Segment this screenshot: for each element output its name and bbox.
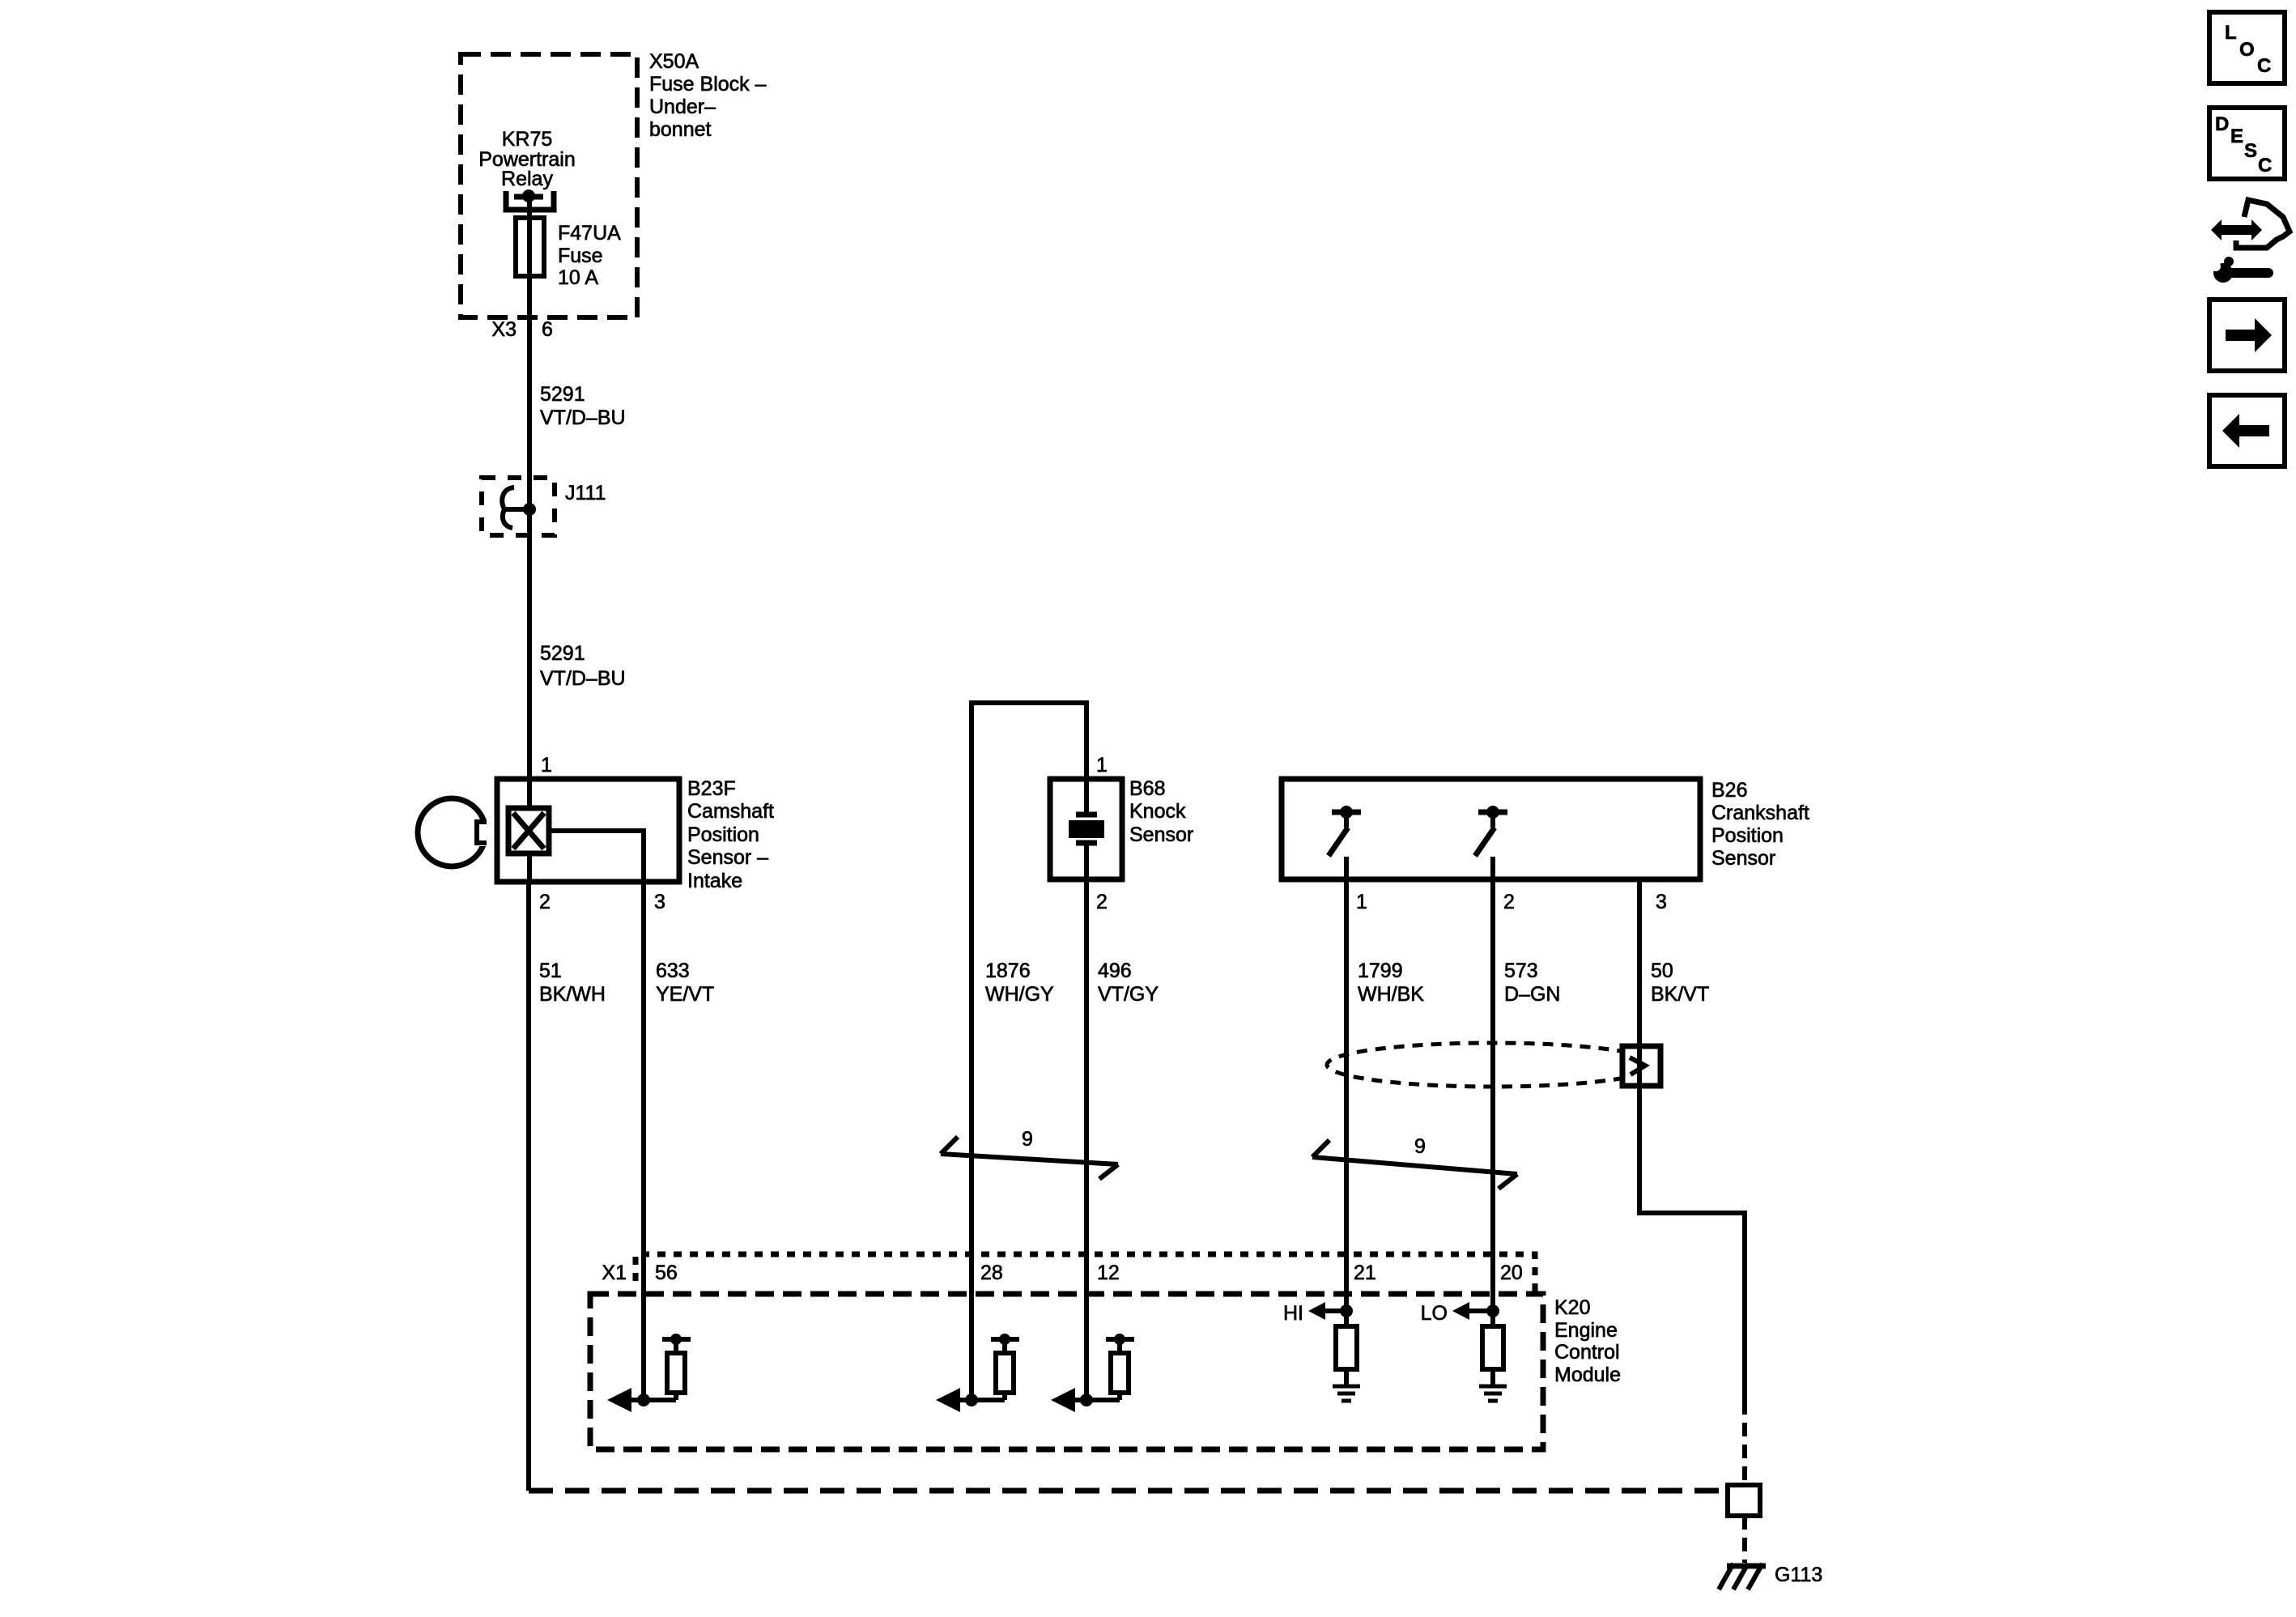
wire X-box to pin 3 [549, 831, 644, 882]
ECM pin 12 termination [1051, 1334, 1134, 1412]
svg-text:5291: 5291 [540, 383, 585, 406]
svg-text:2: 2 [1096, 891, 1108, 913]
label 496 VT/GY [1098, 960, 1159, 1006]
svg-text:2: 2 [1503, 891, 1515, 913]
wire ground dashed run [529, 1488, 1728, 1494]
svg-text:G113: G113 [1775, 1564, 1822, 1586]
fuse F47UA [516, 218, 544, 276]
label 633 YE/VT [656, 960, 714, 1006]
wire 50 dashed to ground [1742, 1401, 1747, 1485]
switch element pin1 B26 [1329, 806, 1361, 856]
svg-text:YE/VT: YE/VT [656, 983, 714, 1006]
pin X3 6 labels [491, 318, 553, 341]
svg-text:1: 1 [1096, 754, 1108, 777]
switch element pin2 B26 [1475, 806, 1507, 856]
connector X1 dotted boundary [636, 1254, 1535, 1294]
svg-text:2: 2 [539, 891, 551, 913]
pin labels 1 2 3 B26 [1356, 891, 1667, 913]
svg-text:bonnet: bonnet [649, 118, 712, 141]
svg-text:Knock: Knock [1129, 800, 1186, 823]
svg-text:WH/GY: WH/GY [985, 983, 1054, 1006]
svg-text:E: E [2230, 126, 2243, 147]
svg-text:12: 12 [1097, 1262, 1120, 1284]
label B23F Camshaft Position Sensor - Intake [687, 777, 774, 892]
label 1876 WH/GY [985, 960, 1054, 1006]
svg-text:10 A: 10 A [558, 266, 598, 289]
label K20 Engine Control Module [1554, 1296, 1621, 1386]
svg-text:C: C [2258, 155, 2272, 177]
svg-text:56: 56 [655, 1262, 678, 1284]
svg-text:9: 9 [1022, 1128, 1033, 1151]
label F47UA Fuse 10 A [558, 222, 621, 289]
svg-text:Sensor: Sensor [1711, 847, 1775, 870]
svg-text:20: 20 [1500, 1262, 1523, 1284]
svg-text:Position: Position [1711, 824, 1784, 847]
wire 573 D-GN [1490, 857, 1495, 1328]
label 51 BK/WH [539, 960, 606, 1006]
svg-text:Position: Position [687, 823, 759, 846]
svg-text:WH/BK: WH/BK [1358, 983, 1424, 1006]
label B26 Crankshaft Position Sensor [1711, 779, 1809, 870]
svg-text:B68: B68 [1129, 777, 1165, 800]
wire 1799 WH/BK [1344, 857, 1349, 1328]
svg-text:D: D [2215, 113, 2229, 135]
wire 5291 VT/D-BU upper [527, 317, 532, 779]
svg-text:Module: Module [1554, 1364, 1621, 1386]
svg-text:BK/WH: BK/WH [539, 983, 606, 1006]
splice J111 dashed box [482, 478, 555, 535]
svg-text:28: 28 [980, 1262, 1003, 1284]
label 50 BK/VT [1651, 960, 1709, 1006]
svg-text:BK/VT: BK/VT [1651, 983, 1709, 1006]
icon DESC box [2209, 108, 2285, 179]
svg-text:K20: K20 [1554, 1296, 1590, 1319]
svg-text:51: 51 [539, 960, 562, 982]
icon arrow left box [2209, 395, 2285, 466]
svg-text:Relay: Relay [501, 168, 553, 190]
ECM pin 20 LO termination [1421, 1302, 1507, 1401]
svg-text:Under–: Under– [649, 96, 716, 118]
sensor B26 box [1282, 779, 1700, 879]
svg-text:O: O [2239, 39, 2255, 61]
label X50A Fuse Block - Underbonnet [649, 50, 767, 141]
label 573 D-GN [1504, 960, 1560, 1006]
wire X-box to pin 2 [527, 853, 532, 882]
sensor B23F box [497, 779, 679, 882]
wire pin1 inside B23F [527, 779, 532, 808]
relay KR75 contact [506, 189, 554, 210]
svg-text:F47UA: F47UA [558, 222, 621, 245]
wire 50 BK/VT [1639, 879, 1745, 1401]
svg-text:J111: J111 [565, 482, 606, 504]
ground connector square [1728, 1485, 1760, 1516]
ECM pin 28 termination [936, 1334, 1019, 1412]
svg-text:633: 633 [656, 960, 690, 982]
icon repair with double arrow and wrench [2206, 200, 2290, 283]
icon arrow right box [2209, 300, 2285, 371]
wire 496 VT/GY [1084, 845, 1089, 1400]
svg-text:VT/GY: VT/GY [1098, 983, 1159, 1006]
knock element plates [1069, 815, 1104, 843]
wire relay to fuse [527, 199, 532, 317]
wire 633 YE/VT [641, 882, 646, 1400]
svg-text:B26: B26 [1711, 779, 1747, 802]
pin labels 56 28 12 21 20 [655, 1262, 1523, 1284]
svg-text:Camshaft: Camshaft [687, 800, 774, 823]
svg-text:LO: LO [1421, 1302, 1448, 1325]
svg-text:Fuse: Fuse [558, 245, 603, 267]
svg-text:9: 9 [1414, 1135, 1426, 1158]
svg-text:6: 6 [542, 318, 553, 341]
svg-text:1799: 1799 [1358, 960, 1403, 982]
shield connector box [1622, 1046, 1660, 1086]
ECM pin 56 termination [607, 1334, 691, 1412]
svg-text:Engine: Engine [1554, 1319, 1618, 1342]
svg-text:21: 21 [1354, 1262, 1376, 1284]
svg-text:496: 496 [1098, 960, 1132, 982]
svg-text:50: 50 [1651, 960, 1673, 982]
harness 9 break knock pair [941, 1137, 1118, 1179]
svg-text:B23F: B23F [687, 777, 736, 800]
svg-text:1: 1 [541, 754, 552, 777]
svg-text:VT/D–BU: VT/D–BU [540, 667, 626, 690]
sensor B68 box [1050, 779, 1122, 879]
splice J111 symbol [502, 487, 536, 528]
ground G113 symbol [1719, 1564, 1766, 1589]
svg-text:D–GN: D–GN [1504, 983, 1560, 1006]
svg-text:Control: Control [1554, 1341, 1620, 1364]
icon LOC box [2209, 12, 2285, 83]
shield ellipse dashed [1327, 1043, 1657, 1087]
svg-text:Fuse Block –: Fuse Block – [649, 73, 767, 96]
fuse block X50A dashed box [461, 54, 637, 317]
sensor element X-box in B23F [508, 808, 549, 853]
label B68 Knock Sensor [1129, 777, 1193, 846]
svg-text:573: 573 [1504, 960, 1538, 982]
connector circle symbol at B23F [418, 798, 491, 866]
label KR75 Powertrain Relay [478, 128, 576, 190]
svg-text:L: L [2225, 22, 2237, 44]
svg-text:Intake: Intake [687, 870, 742, 892]
svg-text:1: 1 [1356, 891, 1367, 913]
svg-text:S: S [2244, 140, 2257, 162]
svg-text:X1: X1 [602, 1262, 627, 1284]
wire knock sensor top link [972, 703, 1086, 1400]
svg-text:3: 3 [654, 891, 665, 913]
svg-text:VT/D–BU: VT/D–BU [540, 406, 626, 429]
svg-text:1876: 1876 [985, 960, 1031, 982]
svg-text:KR75: KR75 [502, 128, 553, 151]
svg-text:HI: HI [1283, 1302, 1303, 1325]
label 5291 VT/D-BU upper [540, 383, 626, 429]
svg-text:Crankshaft: Crankshaft [1711, 802, 1809, 824]
wire 51 BK/WH [526, 882, 531, 1491]
wire square to ground symbol dashed [1742, 1516, 1747, 1563]
svg-text:Sensor: Sensor [1129, 823, 1193, 846]
svg-text:5291: 5291 [540, 642, 585, 665]
svg-text:X50A: X50A [649, 50, 699, 73]
module K20 ECM dashed box [590, 1294, 1543, 1449]
harness 9 break crank pair [1312, 1140, 1517, 1189]
svg-text:C: C [2257, 55, 2271, 77]
label 1799 WH/BK [1358, 960, 1424, 1006]
svg-text:X3: X3 [491, 318, 517, 341]
svg-text:3: 3 [1656, 891, 1667, 913]
svg-text:Sensor –: Sensor – [687, 846, 768, 869]
ECM pin 21 HI termination [1283, 1302, 1360, 1401]
label 5291 VT/D-BU lower [540, 642, 626, 690]
